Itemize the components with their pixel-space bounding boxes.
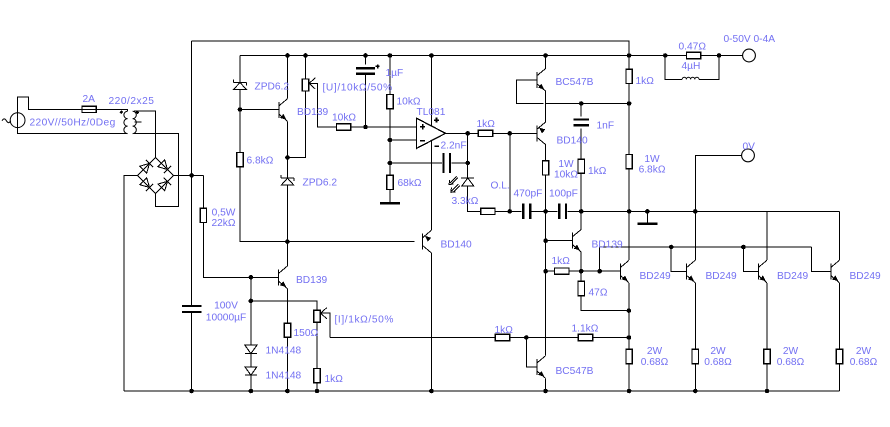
svg-text:470pF: 470pF (514, 189, 543, 200)
diode D7 1N4148 (245, 367, 257, 375)
wire zener to node (239, 89, 241, 109)
junction inductor branch right (717, 53, 722, 58)
wire comp node down (545, 211, 547, 240)
junction 1uF top rail (363, 53, 368, 58)
junction base drive node (508, 131, 513, 136)
wire to 1k (546, 270, 555, 272)
svg-text:1kΩ: 1kΩ (636, 76, 655, 87)
wire inductor branch (665, 56, 682, 80)
wire T7 emitter to bottom rail (545, 378, 547, 391)
LED light arrows (449, 176, 460, 192)
potentiometer P1 [U] 10k (302, 79, 308, 91)
wire wiper to 10k (317, 126, 337, 128)
wire node to LED (467, 163, 469, 178)
transistor T5 BD139 (573, 229, 582, 252)
svg-text:1kΩ: 1kΩ (552, 256, 571, 267)
svg-text:BC547B: BC547B (556, 366, 594, 377)
junction base drive line drop (597, 269, 602, 274)
wire top rail riser (191, 41, 193, 175)
transistor T6 BD139 (279, 266, 288, 289)
svg-text:220/2x25: 220/2x25 (109, 96, 155, 107)
wire node to 6.8k (239, 110, 241, 153)
wire 1nF to 1k (580, 128, 582, 159)
transistor T3 BD140 (537, 122, 546, 145)
wire ZD2 to bias line (287, 185, 289, 242)
wire Q3 base drop (743, 247, 758, 272)
wire pot U bottom (288, 91, 306, 158)
junction inductor branch left (663, 53, 668, 58)
wire 47R to emitter node (581, 296, 629, 311)
wire rail to pot U (305, 56, 307, 80)
svg-text:0.68Ω: 0.68Ω (641, 357, 669, 368)
svg-text:47Ω: 47Ω (589, 288, 608, 299)
resistor R20 1k (314, 369, 320, 383)
resistor R12 0.47R (686, 52, 700, 58)
svg-text:150Ω: 150Ω (294, 328, 319, 339)
ground opamp (380, 190, 400, 204)
resistor R7 3.3k (481, 208, 495, 214)
svg-text:10kΩ: 10kΩ (332, 113, 356, 124)
bridge rectifier diamond (138, 158, 174, 194)
svg-text:6.8kΩ: 6.8kΩ (247, 156, 274, 167)
wire 6.8k down to bias line (240, 167, 287, 242)
wire T5 emitter (580, 252, 582, 271)
wire node to filter cap (191, 175, 193, 306)
junction 10k top rail (388, 53, 393, 58)
wire source top to fuse (18, 97, 82, 128)
wire bridge minus to bottom rail (124, 175, 138, 391)
wire 10k to inverting node (389, 109, 391, 140)
wire 1.1k to emitter node (593, 337, 629, 339)
resistor R2 6.8k (237, 153, 243, 167)
svg-text:BD249: BD249 (850, 271, 881, 282)
wire T6 collector (286, 242, 288, 266)
junction inverting input node (388, 138, 393, 143)
junction T1 emitter node (285, 155, 290, 160)
zener diode ZD1 ZPD6.2 (234, 80, 247, 90)
svg-text:1kΩ: 1kΩ (477, 119, 496, 130)
svg-text:0,5W: 0,5W (212, 208, 236, 219)
junction merge rails (627, 53, 632, 58)
wire 0.68R to bottom rail (628, 364, 630, 391)
wire secondary bottom to bridge bottom (134, 134, 178, 207)
junction 1nF top node (579, 101, 584, 106)
potentiometer P2 [I] 1k (314, 310, 320, 322)
resistor R6 1k (478, 130, 492, 136)
wire 1k to T3 base (493, 132, 537, 134)
svg-text:22kΩ: 22kΩ (211, 218, 235, 229)
wire emitter node to right rail (546, 103, 630, 105)
wire node to 6.8k (628, 104, 630, 155)
wire node to pot I (251, 301, 317, 310)
wire 1k to node (628, 84, 630, 104)
svg-text:10000µF: 10000µF (206, 313, 246, 324)
wire 22k to BD139 base line (203, 223, 251, 278)
svg-text:68kΩ: 68kΩ (398, 178, 422, 189)
LED D5 O.L. (461, 178, 474, 186)
transistor Q2 BD249 (687, 260, 696, 283)
wire T1 base (240, 109, 279, 111)
svg-text:0.68Ω: 0.68Ω (777, 357, 805, 368)
svg-text:BD140: BD140 (557, 136, 588, 147)
junction noninverting input node (363, 125, 368, 130)
svg-text:2W: 2W (647, 346, 663, 357)
svg-text:0-50V 0-4A: 0-50V 0-4A (724, 34, 776, 45)
wire node down to 1k (545, 241, 547, 272)
output terminal 0-50V (743, 49, 756, 62)
wire LED to 3.3k (468, 186, 481, 211)
bridge diode D4 (bottom-right) (158, 178, 171, 191)
wire top outer rail (192, 41, 629, 56)
wire 1k to T7 base node (510, 337, 579, 339)
wire T5 base (546, 240, 573, 242)
resistor R14 47R (578, 281, 584, 295)
resistor R4 10k (387, 94, 393, 108)
wire T2 base loop (517, 80, 544, 104)
capacitor C4 470pF (523, 204, 530, 220)
svg-text:ZPD6.2: ZPD6.2 (255, 82, 290, 93)
wire T6 emitter (286, 289, 288, 324)
resistor R13 1k (555, 268, 569, 274)
opamp V- marker (434, 145, 438, 147)
wire node to 0.68R (628, 338, 630, 350)
junction bottom rail Q2 (693, 389, 698, 394)
junction mid rail / 6.8k / Q1 collector (627, 209, 632, 214)
wire transformer center tap stub (135, 121, 142, 123)
wire 1k to bottom rail (316, 383, 318, 392)
svg-text:1nF: 1nF (597, 121, 615, 132)
svg-text:1.1kΩ: 1.1kΩ (572, 324, 599, 335)
junction 1k left (543, 269, 548, 274)
svg-text:1kΩ: 1kΩ (495, 325, 514, 336)
capacitor C3 2.2nF (444, 153, 451, 173)
opamp inverting input marker (420, 140, 425, 142)
capacitor C5 100pF (559, 204, 566, 220)
transformer polarity dot primary (119, 110, 123, 114)
bridge diode D1 (left-top) (140, 160, 153, 173)
svg-text:1W: 1W (644, 154, 660, 165)
wire cap to output node (452, 162, 468, 164)
transistor Q1 BD249 (620, 260, 629, 283)
transformer T1 primary winding (124, 111, 128, 133)
transistor Q3 BD249 (758, 260, 767, 283)
svg-text:3.3kΩ: 3.3kΩ (452, 196, 479, 207)
svg-text:[U]/10kΩ/50%: [U]/10kΩ/50% (323, 83, 393, 94)
svg-text:2A: 2A (83, 94, 96, 105)
resistor R10 1k (626, 69, 632, 83)
wire resistor to terminal (701, 55, 743, 57)
junction T7 base node (524, 335, 529, 340)
wire node to diodes (250, 301, 252, 345)
svg-text:1W: 1W (558, 159, 574, 170)
wire 10k to comp node (545, 175, 547, 211)
junction Q1 emitter node (627, 308, 632, 313)
svg-text:100pF: 100pF (549, 189, 578, 200)
transformer T1 secondary winding (133, 111, 137, 133)
wire Q2 collector (694, 211, 696, 260)
wire T6 base (251, 276, 279, 278)
wire source bottom to transformer primary (18, 127, 128, 133)
wire Q1 emitter node down (628, 311, 630, 338)
resistor R16 2W 0.68R (692, 349, 698, 363)
resistor R9 1k (578, 159, 584, 173)
label 2W 0.68R R15 (641, 346, 669, 368)
junction T2 collector rail (543, 53, 548, 58)
svg-text:[I]/1kΩ/50%: [I]/1kΩ/50% (335, 315, 395, 326)
junction bottom rail pot I (315, 389, 320, 394)
wire 0V to mid rail (695, 155, 741, 211)
wire inner top rail (240, 55, 629, 57)
wire rail to BD140 T4 emitter (430, 56, 432, 231)
wire bridge plus to node (173, 174, 203, 176)
svg-text:10kΩ: 10kΩ (554, 170, 578, 181)
label 100V 10000uF C1 (206, 301, 246, 324)
junction bottom rail T7 (543, 389, 548, 394)
capacitor C2 1uF (356, 68, 375, 74)
wire mid rail right (629, 210, 839, 212)
transistor T2 BC547B (537, 69, 546, 92)
svg-text:BC547B: BC547B (556, 77, 594, 88)
wire filter cap to bottom rail (191, 312, 193, 391)
wire secondary top to bridge top (134, 111, 155, 157)
wire rail to output resistor (629, 55, 686, 57)
label 2W 0.68R R17 (777, 346, 805, 368)
wire 0.68R to bottom rail (766, 364, 768, 391)
wire node to 1nF (580, 104, 582, 117)
wire base node down (250, 277, 252, 301)
svg-text:4µH: 4µH (682, 61, 701, 72)
pot I wiper arrow (321, 308, 330, 338)
svg-text:1N4148: 1N4148 (266, 371, 302, 382)
wire feedback to cap (390, 162, 442, 164)
junction 1.1k node (627, 335, 632, 340)
junction bottom rail diodes (249, 389, 254, 394)
op-amp U1 TL081 (417, 118, 446, 148)
resistor R11 1W 6.8k (626, 155, 632, 169)
transistor T1 BD139 (279, 99, 288, 122)
svg-text:BD249: BD249 (706, 271, 737, 282)
junction bottom rail Q3 (765, 389, 770, 394)
junction bridge output (189, 173, 194, 178)
label 2W 0.68R R18 (850, 346, 878, 368)
svg-text:1kΩ: 1kΩ (325, 374, 344, 385)
label 1W 10k R8 (554, 159, 578, 181)
wire T2 emitter (545, 91, 547, 103)
wire node to 22k resistor (202, 175, 204, 208)
svg-text:0V: 0V (743, 142, 756, 153)
svg-text:BD140: BD140 (441, 240, 472, 251)
wire rail to 1k (628, 56, 630, 70)
wire Q3 emitter (766, 283, 768, 350)
svg-text:1µF: 1µF (386, 68, 404, 79)
junction pot U top rail (303, 53, 308, 58)
wire 470p to node (532, 210, 558, 212)
wire node down to comp line (509, 133, 511, 211)
resistor R22 1.1k (578, 334, 592, 340)
wire Q4 emitter (839, 283, 841, 350)
svg-text:BD139: BD139 (297, 107, 328, 118)
plus mark C2 (376, 65, 380, 69)
junction ZD2 bottom bias line (285, 239, 290, 244)
wire rail to 1uF (365, 56, 367, 65)
svg-text:100V: 100V (214, 301, 238, 312)
opamp noninverting input marker (420, 124, 425, 129)
wire rail to zener ZPD6.2 (239, 56, 241, 83)
junction 0V rail (693, 209, 698, 214)
inductor L1 4uH (682, 77, 699, 79)
capacitor C6 1nF (574, 120, 589, 126)
wire inverting input (390, 139, 417, 141)
junction pot I feed (249, 299, 254, 304)
wire Q2 emitter (694, 283, 696, 350)
resistor R5 68k (387, 175, 393, 189)
svg-text:220V//50Hz/0Deg: 220V//50Hz/0Deg (30, 118, 116, 129)
resistor R3 10k (337, 124, 351, 130)
svg-text:2W: 2W (856, 346, 872, 357)
wire Q1 emitter (628, 283, 630, 311)
svg-text:ZPD6.2: ZPD6.2 (303, 178, 338, 189)
wire output node down (467, 133, 469, 163)
junction base line Q2 (669, 245, 674, 250)
wire bias line to BD140 T4 base (287, 241, 414, 243)
wire T1 collector to rail (287, 56, 289, 99)
junction filter cap bottom (189, 389, 194, 394)
junction bottom rail T4 (429, 389, 434, 394)
wire opamp output (446, 132, 479, 134)
junction right rail node (627, 101, 632, 106)
wire node down (389, 140, 391, 163)
wire fuse to transformer primary (96, 109, 127, 111)
junction T5 emitter node (579, 269, 584, 274)
wire T4 collector to bottom rail (430, 253, 432, 391)
wire Q4 collector (839, 211, 841, 260)
wire node to 47R (580, 271, 582, 281)
wire bottom rail (124, 390, 840, 392)
opamp V+ marker (434, 118, 439, 123)
svg-text:BD139: BD139 (296, 275, 327, 286)
wire 3.3k to node (495, 210, 522, 212)
wire 10k to opamp + (351, 126, 417, 128)
wire T1 emitter down (287, 121, 289, 157)
resistor R19 150R (284, 323, 290, 337)
fuse F1 2A (82, 106, 96, 112)
junction zener / 6.8k / base (238, 107, 243, 112)
wire 150R to bottom rail (286, 337, 288, 391)
junction output node (465, 131, 470, 136)
junction comp node A (508, 209, 513, 214)
svg-text:BD249: BD249 (777, 271, 808, 282)
resistor R21 1k (495, 334, 509, 340)
wire rail to 10k (389, 56, 391, 95)
svg-text:1kΩ: 1kΩ (588, 166, 607, 177)
wire node to zener ZD2 (287, 158, 289, 179)
label 1W 6.8k R11 (639, 154, 666, 176)
pot U wiper arrow (309, 78, 317, 127)
wire base drive line (600, 247, 812, 271)
resistor R18 2W 0.68R (836, 349, 842, 363)
junction bottom rail 150R (285, 389, 290, 394)
svg-text:0.47Ω: 0.47Ω (679, 42, 707, 53)
junction T1 collector rail (285, 53, 290, 58)
wire T3 collector down (545, 145, 547, 161)
wire T7 base (526, 338, 537, 368)
svg-text:1N4148: 1N4148 (266, 346, 302, 357)
terminal 0V (742, 149, 755, 162)
transistor T7 BC547B (537, 356, 546, 379)
AC source V1 220V/50Hz (2, 113, 25, 128)
svg-text:0.68Ω: 0.68Ω (850, 357, 878, 368)
bridge diode D3 (left-bottom) (140, 178, 153, 191)
wire Q1 collector (628, 211, 630, 260)
resistor R15 2W 0.68R (626, 349, 632, 363)
wire 0.68R to bottom rail (839, 364, 841, 391)
svg-text:2W: 2W (783, 346, 799, 357)
svg-text:6.8kΩ: 6.8kΩ (639, 165, 666, 176)
svg-text:O.L.: O.L. (491, 181, 510, 192)
wire 1uF to input node (365, 74, 367, 127)
ground mid rail (637, 211, 657, 223)
wire 0.68R to bottom rail (694, 364, 696, 391)
junction 2.2n output node (465, 161, 470, 166)
label 0,5W 22k R1 (211, 208, 235, 230)
wire T2 collector to rail (545, 56, 547, 69)
wire Q4 base drop (811, 247, 831, 272)
wire T5 collector (580, 211, 582, 229)
diode D6 1N4148 (245, 345, 257, 353)
svg-text:BD139: BD139 (592, 240, 623, 251)
svg-text:10kΩ: 10kΩ (397, 97, 421, 108)
junction T5 base node (543, 238, 548, 243)
wire diode to bottom rail (250, 375, 252, 391)
zener diode ZD2 ZPD6.2 (281, 175, 294, 185)
svg-text:2.2nF: 2.2nF (441, 141, 467, 152)
wire inductor to node (699, 56, 719, 80)
transistor Q4 BD249 (831, 260, 840, 283)
resistor R1 0.5W 22k (200, 208, 206, 222)
bridge diode D2 (top-right) (158, 160, 171, 173)
junction comp node C (579, 209, 584, 214)
capacitor C1 100V/10000uF (182, 306, 202, 312)
junction feedback node (388, 161, 393, 166)
wire current set line (330, 337, 496, 339)
label 2W 0.68R R16 (704, 346, 732, 368)
wire between diodes (250, 354, 252, 367)
wire node to 68k (389, 163, 391, 175)
wire 1k to Q1 base (569, 270, 620, 272)
wire T3 emitter up (545, 104, 547, 123)
svg-text:2W: 2W (710, 346, 726, 357)
transistor T4 BD140 (423, 230, 432, 253)
wire 6.8k to mid rail (628, 169, 630, 212)
wire 1k to comp node (580, 173, 582, 211)
junction base line Q3 (741, 245, 746, 250)
junction mid rail ground (645, 209, 650, 214)
resistor R8 1W 10k (542, 161, 548, 175)
svg-text:TL081: TL081 (417, 107, 446, 118)
wire Q2 base drop (671, 247, 686, 272)
wire Q3 collector (766, 211, 768, 260)
junction rail / T4 emitter wire (429, 53, 434, 58)
junction comp node B (543, 209, 548, 214)
transformer polarity dot secondary (136, 111, 140, 115)
svg-text:0.68Ω: 0.68Ω (704, 357, 732, 368)
junction bottom rail Q1 (627, 389, 632, 394)
svg-text:BD249: BD249 (640, 271, 671, 282)
resistor R17 2W 0.68R (764, 349, 770, 363)
wire 100p to rail node (567, 210, 629, 212)
junction BD139 T6 base node (249, 275, 254, 280)
wire T5 base node to T7 collector (545, 271, 547, 356)
